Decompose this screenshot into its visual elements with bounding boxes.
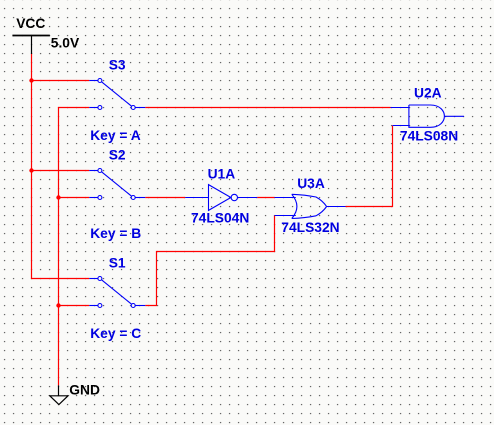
node junction VCC-S2 <box>29 168 33 172</box>
node junction VCC-S3 <box>29 78 33 82</box>
svg-text:U2A: U2A <box>414 86 442 101</box>
inverter U1A 74LS04N <box>185 185 257 211</box>
svg-text:5.0V: 5.0V <box>51 36 80 51</box>
wire S3 pole to U2A input A <box>145 107 390 109</box>
wire VCC to S3 throw1 <box>32 80 90 82</box>
svg-text:Key = A: Key = A <box>90 128 141 143</box>
svg-text:S2: S2 <box>109 148 126 163</box>
wire GND net vertical with S3 branch corner <box>59 108 90 386</box>
switch S2 <box>89 169 145 200</box>
svg-text:74LS32N: 74LS32N <box>281 220 339 235</box>
svg-text:VCC: VCC <box>16 16 45 31</box>
power VCC symbol <box>12 36 49 55</box>
svg-text:S1: S1 <box>109 256 126 271</box>
or-gate U3A 74LS32N <box>275 194 346 218</box>
svg-text:U3A: U3A <box>297 176 325 191</box>
svg-text:Key = B: Key = B <box>90 226 141 241</box>
wire VCC to S2 throw1 <box>32 170 90 172</box>
wire GND to S2 throw2 <box>59 197 90 199</box>
svg-text:74LS04N: 74LS04N <box>191 211 249 226</box>
wire U1A output to U3A input A <box>257 197 274 199</box>
svg-text:S3: S3 <box>109 58 126 73</box>
wire GND to S1 throw2 <box>59 305 90 307</box>
ground GND symbol <box>50 385 68 404</box>
svg-text:74LS08N: 74LS08N <box>400 128 458 143</box>
node junction GND-S2 <box>56 195 60 199</box>
svg-text:U1A: U1A <box>208 166 236 181</box>
switch S1 <box>89 277 145 308</box>
wire S1 pole to U3A input B <box>145 216 274 306</box>
and-gate U2A 74LS08N <box>391 105 464 127</box>
wire VCC net vertical with S1 branch corner <box>32 54 90 279</box>
svg-text:Key = C: Key = C <box>90 326 141 341</box>
switch S3 <box>89 79 145 110</box>
wire U3A output to U2A input B <box>346 126 393 207</box>
node junction GND-S1 <box>56 303 60 307</box>
svg-text:GND: GND <box>69 382 100 397</box>
wire S2 pole to U1A input <box>145 197 185 199</box>
